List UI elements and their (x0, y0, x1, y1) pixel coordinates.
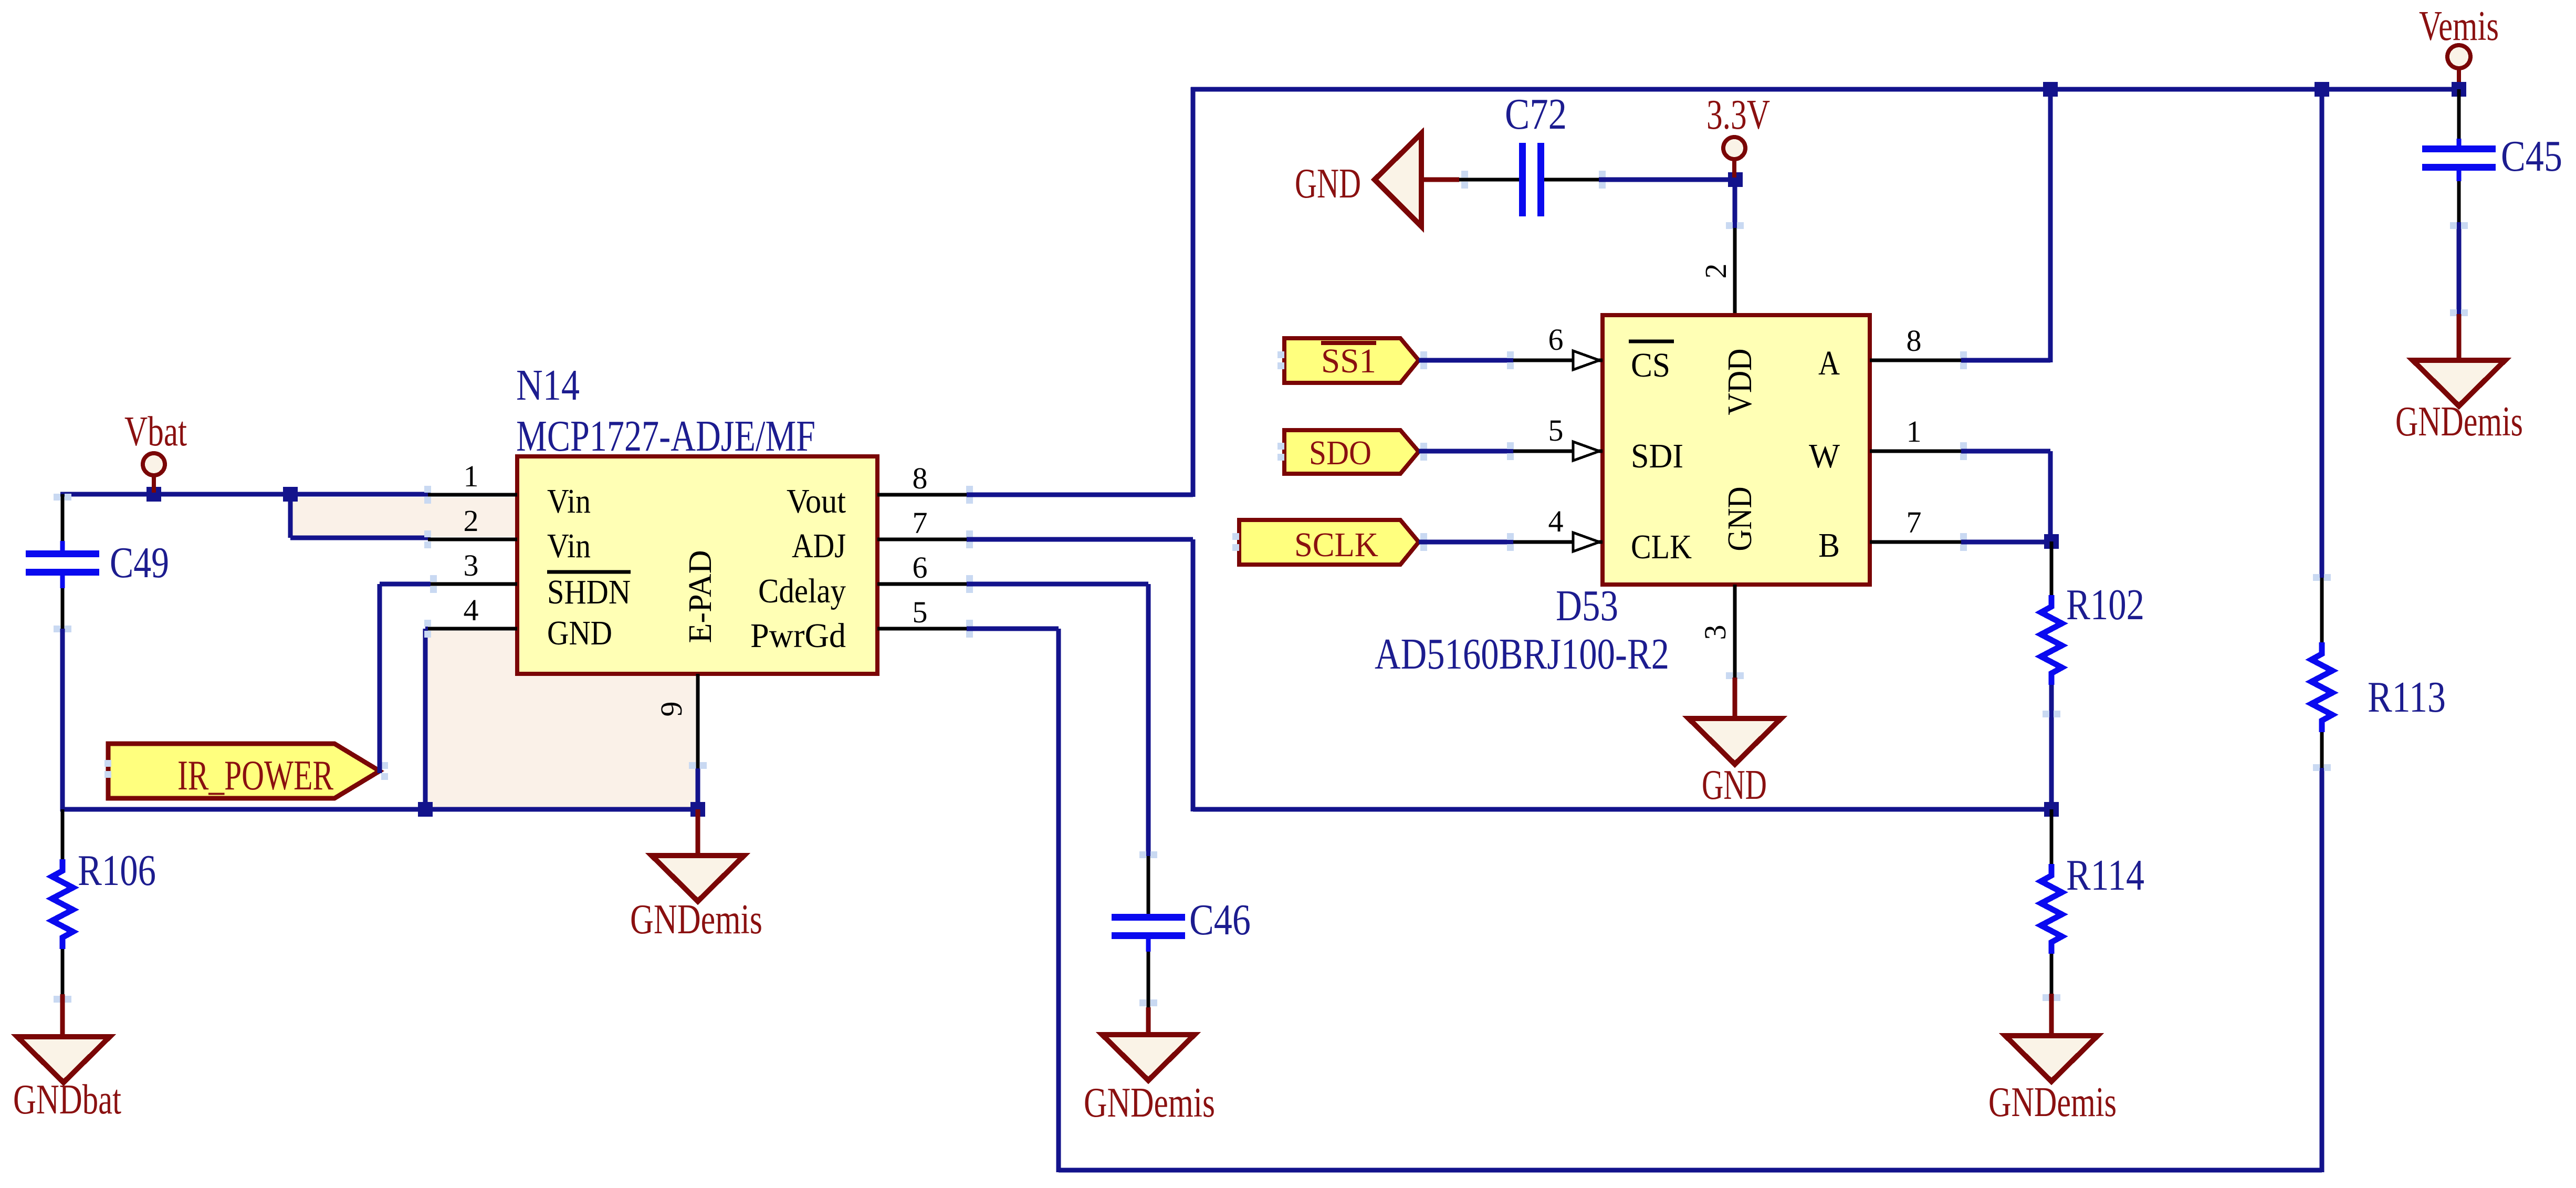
svg-text:3.3V: 3.3V (1706, 92, 1770, 138)
node junction 3.3V (1728, 172, 1743, 187)
ground GNDemis below R114 (2049, 994, 2054, 1038)
pin 7 ADJ stub (877, 538, 967, 541)
svg-text:4: 4 (1548, 504, 1564, 538)
net label flag SCLK (1239, 520, 1419, 565)
wire mid bottom bus ADJ net (1193, 807, 2051, 812)
svg-text:GND: GND (1295, 161, 1361, 207)
wire C49 to ground bus (60, 629, 65, 811)
svg-text:D53: D53 (1556, 581, 1618, 630)
power flag IR_POWER (108, 744, 380, 798)
svg-text:SDO: SDO (1309, 434, 1371, 472)
svg-text:VDD: VDD (1721, 349, 1759, 415)
svg-text:B: B (1818, 526, 1840, 565)
svg-text:R113: R113 (2368, 673, 2446, 722)
svg-text:GNDemis: GNDemis (2395, 399, 2523, 445)
capacitor C49 (60, 541, 65, 550)
wire A pin to top bus (1961, 358, 2050, 363)
pin 4 CLK stub with input arrow (1513, 540, 1603, 544)
svg-text:PwrGd: PwrGd (750, 617, 846, 655)
svg-text:7: 7 (1907, 505, 1922, 539)
svg-text:GNDbat: GNDbat (13, 1077, 121, 1123)
svg-text:R114: R114 (2066, 851, 2144, 900)
resistor R114 (2050, 809, 2054, 866)
svg-text:7: 7 (913, 506, 928, 540)
capacitor C45 (2457, 89, 2461, 139)
wire Vbat net horizontal to Vin pins (60, 492, 431, 497)
resistor R113 riser (2320, 87, 2324, 578)
svg-text:6: 6 (1548, 322, 1564, 357)
pin 3 GND stub down (1733, 585, 1737, 679)
node junction Vemis C45 (2452, 82, 2466, 97)
svg-text:CS: CS (1631, 346, 1670, 384)
capacitor C72 (1459, 178, 1519, 182)
wire PwrGd net down and right (967, 627, 1059, 631)
svg-text:GND: GND (547, 614, 612, 652)
pin 9 E-PAD stub (696, 674, 700, 768)
ground GNDemis below E-PAD (696, 809, 700, 858)
svg-text:GNDemis: GNDemis (630, 897, 762, 943)
svg-text:1: 1 (1907, 414, 1922, 449)
svg-text:SS1: SS1 (1321, 342, 1376, 380)
net label flag SS1 (1284, 338, 1419, 383)
svg-text:MCP1727-ADJE/MF: MCP1727-ADJE/MF (516, 412, 815, 461)
svg-text:R102: R102 (2066, 580, 2144, 629)
svg-text:GND: GND (1721, 487, 1759, 551)
node junction Vbat (146, 487, 161, 502)
pin 5 PwrGd stub (877, 627, 967, 631)
wire SCLK to CLK pin 4 (1419, 540, 1513, 545)
svg-text:5: 5 (1548, 413, 1564, 447)
pin 3 SHDN stub (431, 582, 517, 586)
pin 6 Cdelay stub (877, 582, 967, 586)
svg-text:SHDN: SHDN (547, 573, 631, 611)
wire Vout net to top bus (967, 493, 1193, 497)
svg-text:N14: N14 (516, 361, 580, 410)
svg-text:Vout: Vout (787, 482, 846, 520)
port Vemis (2447, 45, 2470, 68)
wire C49 top vertical (61, 494, 65, 498)
svg-text:IR_POWER: IR_POWER (177, 753, 333, 799)
svg-text:Vemis: Vemis (2419, 3, 2499, 49)
ground GND below D53 (1733, 678, 1737, 721)
wire Cdelay net to C46 (967, 582, 1148, 587)
svg-text:5: 5 (913, 595, 928, 629)
ground GND arrow left (1375, 133, 1421, 226)
svg-text:3: 3 (464, 548, 479, 582)
svg-text:SDI: SDI (1631, 437, 1683, 475)
svg-text:CLK: CLK (1631, 528, 1692, 566)
svg-text:8: 8 (1907, 324, 1922, 358)
wire W pin down to B junction (1961, 449, 2050, 454)
pin 4 GND stub (428, 627, 517, 631)
wire C72 to 3.3V node (1599, 178, 1735, 182)
svg-text:Vin: Vin (547, 482, 591, 520)
svg-text:4: 4 (464, 593, 479, 627)
pin 6 CS stub with input arrow (1513, 359, 1603, 362)
port 3.3V (1723, 137, 1745, 159)
svg-text:Vin: Vin (547, 527, 591, 565)
wire SDO to SDI pin 5 (1419, 449, 1513, 454)
svg-text:2: 2 (464, 504, 479, 538)
svg-text:Cdelay: Cdelay (758, 572, 846, 610)
svg-text:GNDemis: GNDemis (1988, 1079, 2117, 1126)
node junction top bus at A riser (2043, 82, 2058, 97)
wire B pin to junction (1961, 540, 2051, 545)
svg-text:C45: C45 (2501, 132, 2562, 181)
node junction W B R102 (2044, 534, 2059, 549)
svg-text:E-PAD: E-PAD (683, 550, 718, 643)
pin 1 W stub (1870, 450, 1961, 453)
svg-text:8: 8 (913, 461, 928, 495)
cream highlight region between Vin pin wires (292, 497, 517, 537)
wire bottom-left ground bus (60, 807, 698, 812)
svg-text:ADJ: ADJ (792, 527, 846, 565)
svg-text:C72: C72 (1505, 90, 1567, 139)
svg-text:SCLK: SCLK (1294, 526, 1378, 564)
svg-text:R106: R106 (78, 846, 156, 895)
wire branch down to Vin pin 2 (288, 494, 293, 538)
wire top bus Vout net (1191, 87, 2459, 92)
ground GNDemis below C45 (2457, 314, 2462, 362)
wire IR_POWER to SHDN pin 3 (378, 584, 382, 773)
pin 8 A stub (1870, 359, 1961, 362)
pin 8 Vout stub (877, 493, 967, 497)
wire GND pin 4 to ground bus (425, 627, 428, 631)
svg-text:2: 2 (1699, 264, 1733, 279)
svg-text:C46: C46 (1189, 895, 1251, 944)
resistor R102 (2050, 541, 2054, 597)
svg-text:9: 9 (654, 702, 688, 717)
wire SS1 to CS pin 6 (1419, 358, 1513, 363)
ground GNDbat (60, 994, 65, 1039)
svg-text:GND: GND (1702, 762, 1767, 808)
capacitor C46 (1147, 856, 1150, 915)
pin 1 Vin stub (428, 493, 517, 497)
pin 7 B stub (1870, 540, 1961, 544)
net label flag SDO (1284, 430, 1419, 474)
resistor R106 (61, 809, 65, 859)
pin 2 Vin stub (428, 538, 517, 541)
node junction top bus at R113 (2315, 82, 2329, 97)
op-amp U regulator N14 MCP1727 body (517, 456, 877, 674)
svg-text:6: 6 (913, 550, 928, 585)
svg-text:Vbat: Vbat (124, 409, 187, 455)
wire 3.3V to VDD pin 2 (1733, 180, 1737, 228)
pin 5 SDI stub with input arrow (1513, 450, 1603, 453)
digital pot D53 AD5160 body (1603, 315, 1870, 585)
svg-text:AD5160BRJ100-R2: AD5160BRJ100-R2 (1375, 630, 1669, 679)
svg-text:3: 3 (1698, 625, 1732, 640)
svg-text:GNDemis: GNDemis (1084, 1080, 1215, 1126)
node junction Vin2 branch (283, 487, 298, 502)
node junction GND pin4 (418, 802, 433, 817)
svg-text:W: W (1809, 437, 1840, 475)
svg-text:1: 1 (464, 459, 479, 493)
port Vbat (143, 453, 165, 475)
wire ADJ net down (967, 537, 1193, 542)
node junction divider mid (2044, 802, 2059, 817)
cream highlight region under N14 between GND pin and E-PAD (427, 631, 696, 807)
svg-text:A: A (1818, 344, 1840, 382)
svg-text:C49: C49 (110, 538, 169, 587)
node junction E-PAD pin9 (690, 802, 705, 817)
ground GNDemis below C46 (1146, 1007, 1151, 1037)
